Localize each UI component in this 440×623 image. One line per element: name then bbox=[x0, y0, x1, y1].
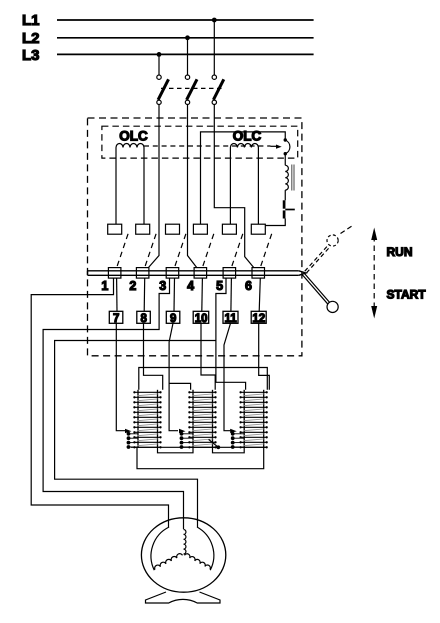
motion dashed diagonal 1 bbox=[117, 231, 129, 267]
wire contact2 to terminal 8 bbox=[143, 278, 146, 311]
moving contact 4 bbox=[194, 268, 207, 279]
wire trip contact to contact 6 bbox=[265, 219, 285, 226]
terminal 8 bbox=[137, 311, 151, 323]
moving contact 1 bbox=[108, 268, 121, 279]
motion dashed diagonal 2 bbox=[145, 231, 157, 267]
wire contact3 to terminal 9 bbox=[173, 278, 176, 311]
wire L3 drop bbox=[158, 54, 160, 74]
svg-text:3: 3 bbox=[159, 279, 166, 293]
wire contact4 to terminal 10 bbox=[201, 278, 204, 311]
overload block inner dashed box bbox=[102, 126, 298, 158]
trip arrow bbox=[271, 145, 277, 147]
motor winding top arm bbox=[184, 530, 186, 555]
fixed contact 3 bbox=[166, 224, 180, 234]
svg-text:START: START bbox=[387, 288, 427, 302]
solenoid core bars bbox=[291, 165, 293, 191]
transformer top bus bbox=[139, 368, 267, 390]
RUN/START arrow dashed bbox=[373, 236, 375, 310]
motor inner arc right bbox=[197, 527, 214, 570]
motion dashed diagonal 6 bbox=[261, 231, 273, 267]
trip latch arc bbox=[284, 138, 287, 141]
wire OLC-L left leg to contact 1 bbox=[115, 148, 117, 225]
svg-text:6: 6 bbox=[245, 279, 252, 293]
motor base bbox=[146, 592, 221, 603]
switch linkage dashed bbox=[161, 87, 222, 89]
wire L1 drop bbox=[213, 20, 215, 75]
wire OLC-R right leg to contact 6 bbox=[257, 148, 259, 225]
wire moving contact 1 to motor lead A bbox=[31, 278, 168, 527]
fixed contact 2 bbox=[136, 224, 150, 234]
fixed contact 1 bbox=[108, 224, 122, 234]
switch bar double line bbox=[88, 271, 299, 276]
wire L3 pole to moving contact 2 bbox=[149, 105, 159, 268]
svg-text:OLC: OLC bbox=[233, 129, 262, 144]
wire L1 pole to moving contact 6 bbox=[214, 105, 253, 268]
wire L1 line bbox=[57, 19, 314, 21]
svg-text:1: 1 bbox=[101, 279, 108, 293]
moving contact 6 bbox=[252, 268, 265, 279]
disconnect switch blade 2 (L2 pole) bbox=[185, 75, 197, 105]
fixed contact 5 bbox=[222, 224, 236, 234]
wire moving contact 3 to motor lead B bbox=[43, 278, 183, 529]
wire terminal 12 to coil3 right top bbox=[259, 323, 270, 390]
svg-text:2: 2 bbox=[129, 279, 136, 293]
svg-text:L1: L1 bbox=[22, 12, 40, 29]
terminal 9 bbox=[166, 311, 180, 323]
overload coil right bbox=[230, 144, 258, 148]
svg-text:OLC: OLC bbox=[119, 129, 148, 144]
terminal 12 bbox=[251, 311, 266, 323]
svg-text:11: 11 bbox=[225, 313, 238, 325]
fixed contact 4 bbox=[193, 224, 207, 234]
svg-text:L3: L3 bbox=[22, 47, 40, 64]
motor winding left arm bbox=[155, 554, 183, 570]
wire tap feed coil3 left bbox=[216, 341, 246, 390]
svg-text:5: 5 bbox=[216, 279, 223, 293]
junction dot L1 bbox=[212, 18, 217, 23]
wire terminal 8 to coil1 right top bbox=[144, 323, 163, 390]
motor outer circle bbox=[141, 518, 225, 592]
handle solid bbox=[302, 273, 338, 313]
svg-text:4: 4 bbox=[187, 279, 194, 293]
wire contact6 to terminal 12 bbox=[259, 278, 260, 311]
junction dot L3 bbox=[157, 52, 162, 57]
moving contact 2 bbox=[136, 268, 149, 279]
svg-text:9: 9 bbox=[170, 313, 176, 325]
motor winding right arm bbox=[185, 554, 211, 570]
wire trip branch top to contact 4 bbox=[201, 132, 286, 224]
svg-text:7: 7 bbox=[113, 313, 119, 325]
trip linkage dashed bbox=[144, 145, 271, 147]
motor inner arc left bbox=[151, 527, 169, 570]
svg-text:RUN: RUN bbox=[387, 245, 413, 259]
terminal 10 bbox=[193, 311, 209, 323]
bottom jog coil1-coil2 bbox=[158, 447, 194, 453]
svg-text:8: 8 bbox=[140, 313, 147, 325]
switch bar pivot bbox=[299, 271, 306, 276]
wire terminal 11 to tap arrow 3 bbox=[224, 323, 231, 430]
wire L2 drop bbox=[187, 38, 189, 75]
junction dot L2 bbox=[185, 35, 190, 40]
terminal 11 bbox=[223, 311, 238, 323]
trip contact bbox=[283, 200, 286, 208]
bottom diagonal tap bbox=[209, 439, 219, 447]
moving contact 5 bbox=[223, 268, 236, 279]
svg-text:12: 12 bbox=[252, 313, 265, 325]
fixed contact 6 bbox=[251, 224, 265, 234]
svg-text:L2: L2 bbox=[22, 30, 40, 47]
motion dashed diagonal 5 bbox=[232, 231, 244, 267]
wire contact1 to terminal 7 bbox=[116, 278, 118, 311]
autotransformer coil 2 bbox=[179, 390, 217, 449]
wire L2 line bbox=[57, 37, 314, 39]
overload coil left bbox=[116, 144, 144, 148]
bottom bus rectangle bbox=[137, 448, 264, 469]
terminal 7 bbox=[109, 311, 123, 323]
wire L2 pole to moving contact 4 bbox=[188, 105, 197, 268]
wire terminal 9 to tap arrow 2 bbox=[169, 323, 178, 430]
disconnect switch blade 1 (L3 pole) bbox=[157, 75, 169, 105]
svg-text:10: 10 bbox=[195, 313, 208, 325]
motion dashed diagonal 4 bbox=[203, 231, 215, 267]
transformer bottom tie line bbox=[131, 446, 267, 448]
autotransformer coil 3 bbox=[230, 390, 268, 449]
starter enclosure dashed box bbox=[88, 118, 302, 356]
autotransformer coil 1 bbox=[125, 390, 162, 449]
disconnect switch blade 3 (L1 pole) bbox=[212, 75, 224, 105]
wire contact5 to terminal 11 bbox=[230, 278, 233, 311]
motion dashed diagonal 3 bbox=[175, 231, 187, 267]
wire L3 line bbox=[57, 53, 314, 55]
wire terminal 7 to tap arrow 1 bbox=[116, 323, 125, 430]
wire terminal 9 branch to coil2 left top bbox=[169, 383, 191, 389]
bottom jog coil2-coil3 bbox=[213, 447, 245, 453]
wire terminal 10 to coil2 right top bbox=[201, 323, 215, 390]
wire OLC-L right leg to contact 2 bbox=[143, 148, 145, 225]
wire moving contact 5 to motor lead C bbox=[55, 278, 226, 527]
solenoid coil U1 bbox=[284, 154, 286, 166]
moving contact 3 bbox=[166, 268, 179, 279]
wire OLC-R left leg to contact 5 bbox=[229, 148, 231, 225]
handle ghost dashed (RUN position) bbox=[305, 226, 353, 273]
